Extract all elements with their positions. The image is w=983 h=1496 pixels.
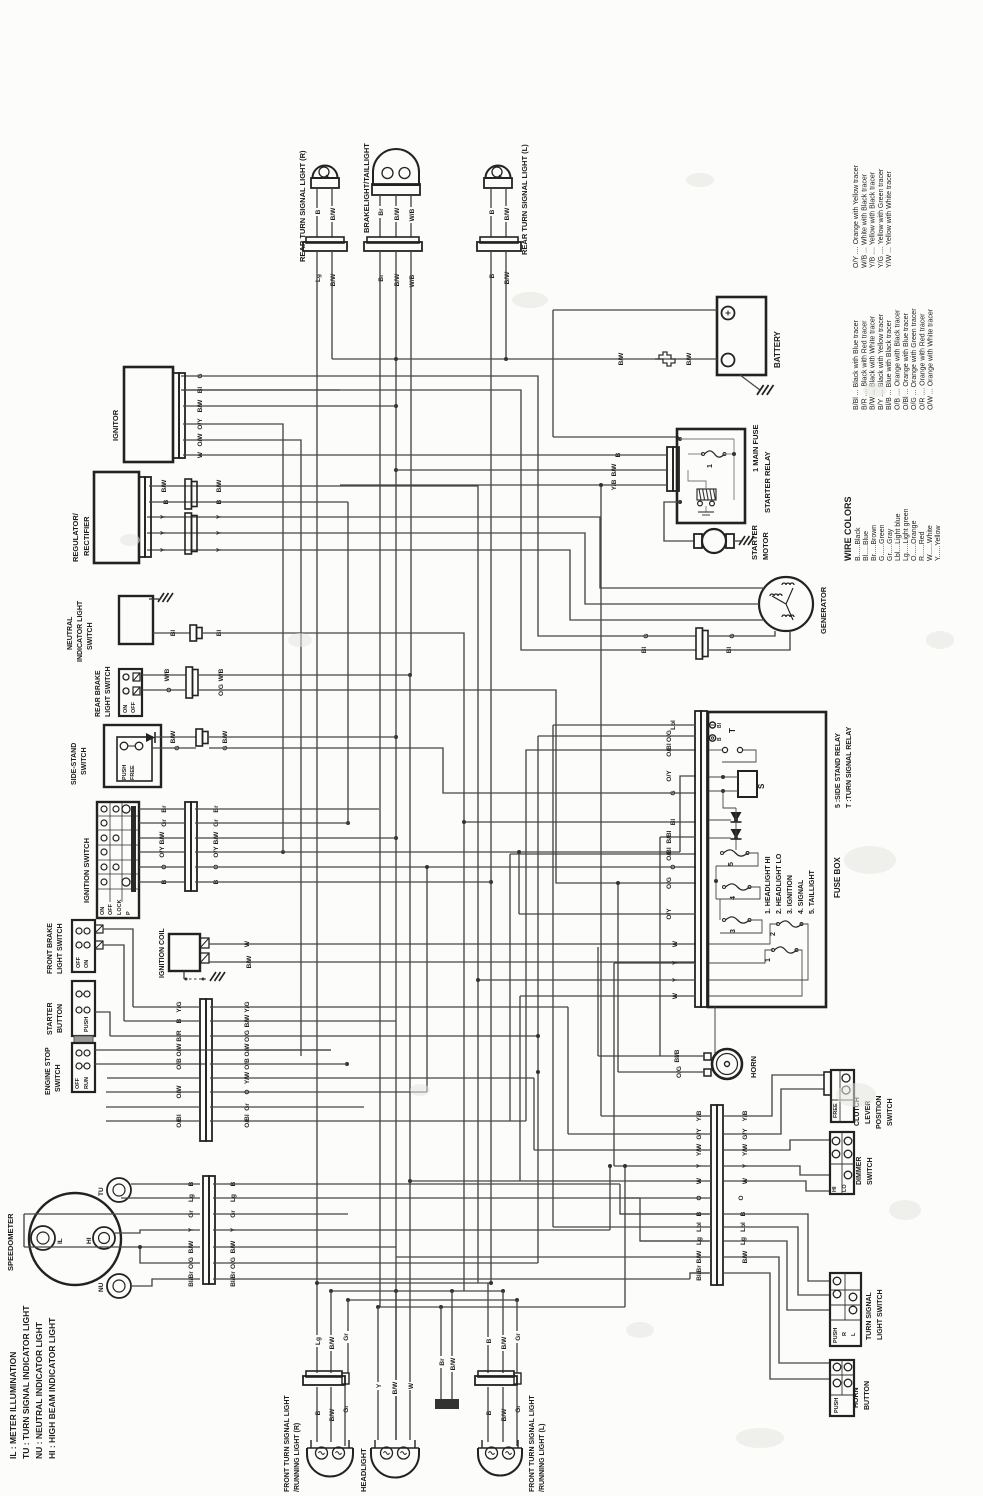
svg-text:IGNITION SWITCH: IGNITION SWITCH xyxy=(82,838,91,903)
svg-text:Y/W ... Yellow with White trac: Y/W ... Yellow with White tracer xyxy=(886,170,893,268)
wire Y/G riser xyxy=(567,1007,569,1134)
junction dist4 xyxy=(450,1289,454,1293)
wire G from side stand xyxy=(152,747,196,749)
wire headlight W riser xyxy=(409,1181,411,1440)
diode fuse box 1 xyxy=(731,812,742,822)
svg-text:1 MAIN FUSE: 1 MAIN FUSE xyxy=(751,424,760,472)
wire Br cont xyxy=(195,808,379,810)
wire O/G riser xyxy=(537,736,539,1263)
connector handlebar 9pin xyxy=(200,999,206,1141)
wire Br taillight drop xyxy=(379,251,381,1307)
wire S feed1 xyxy=(709,776,738,778)
label B/W front2 xyxy=(327,1407,337,1423)
wire front R B seg xyxy=(316,1387,318,1442)
junction dist3 xyxy=(394,1289,398,1293)
svg-text:Br: Br xyxy=(378,274,385,282)
svg-text:B: B xyxy=(740,1211,747,1216)
svg-text:ON: ON xyxy=(100,907,106,915)
wire right bar left row xyxy=(690,1272,711,1274)
wire B from regulator xyxy=(149,501,348,503)
svg-text:Y: Y xyxy=(672,977,679,982)
wire front R Gr riser xyxy=(347,1300,349,1373)
svg-text:B/W: B/W xyxy=(611,463,618,477)
starter relay box xyxy=(677,429,745,523)
wire rear R lamp B stub xyxy=(316,188,318,237)
horn terminal 1 xyxy=(704,1053,711,1060)
svg-text:O: O xyxy=(161,864,168,869)
junction dist7 xyxy=(346,1298,350,1302)
label Gr frontL2 xyxy=(513,1403,523,1415)
svg-text:SPEEDOMETER: SPEEDOMETER xyxy=(6,1213,15,1271)
wire front R B/W riser xyxy=(330,1291,332,1373)
junction Gr row xyxy=(346,821,350,825)
generator coil B xyxy=(782,583,794,585)
relay T contacts xyxy=(722,747,727,752)
side-stand switch box xyxy=(104,725,161,787)
svg-text:Gr.....Gray: Gr.....Gray xyxy=(887,528,894,561)
svg-text:O/Bl: O/Bl xyxy=(244,1114,251,1128)
label B frontL2 xyxy=(484,1409,494,1417)
svg-text:LIGHT SWITCH: LIGHT SWITCH xyxy=(877,1289,884,1340)
label B/W xyxy=(502,270,512,286)
wire speedo B/W xyxy=(24,1246,200,1248)
wire O/W row join xyxy=(205,1049,331,1051)
svg-text:R: R xyxy=(842,1332,848,1336)
lamp brake light / taillight xyxy=(373,149,419,185)
svg-text:GENERATOR: GENERATOR xyxy=(819,586,828,634)
wire O/Bl riser xyxy=(526,750,696,1121)
svg-text:O: O xyxy=(244,1089,251,1094)
junction Y/B xyxy=(599,483,603,487)
wire S to diode xyxy=(723,791,736,808)
wire Y/W riser xyxy=(533,1078,535,1150)
fuse 4 xyxy=(726,884,750,890)
svg-text:B/W: B/W xyxy=(618,352,625,366)
wire relay fuse row xyxy=(688,453,703,455)
svg-text:B/W: B/W xyxy=(686,352,693,366)
svg-text:B/W: B/W xyxy=(216,479,223,493)
wire speedo bar right row xyxy=(213,1197,640,1199)
wire 9pin right row xyxy=(210,1063,347,1065)
svg-text:Gr: Gr xyxy=(161,819,168,827)
svg-text:Lg: Lg xyxy=(230,1194,237,1202)
svg-text:G: G xyxy=(643,633,650,638)
svg-text:B: B xyxy=(161,879,168,884)
wire 9pin left row xyxy=(106,1120,200,1122)
wire B/Bl fuse row xyxy=(660,836,696,838)
wire right bar left row xyxy=(614,1165,711,1167)
svg-text:Y/G .... Yellow with Green tra: Y/G .... Yellow with Green tracer xyxy=(878,168,885,268)
svg-text:/RUNNING LIGHT (L): /RUNNING LIGHT (L) xyxy=(539,1424,546,1492)
svg-text:T: T xyxy=(728,728,737,733)
svg-text:B: B xyxy=(615,452,622,457)
wire right bar left row xyxy=(640,1240,711,1242)
svg-text:B/W: B/W xyxy=(501,1336,508,1350)
wire B cont xyxy=(195,881,491,883)
svg-text:4. SIGNAL: 4. SIGNAL xyxy=(798,879,805,914)
wire mid conn Br xyxy=(440,1307,442,1399)
svg-text:W: W xyxy=(672,940,679,947)
svg-text:B/W: B/W xyxy=(394,273,401,287)
svg-text:5: 5 xyxy=(728,862,735,866)
wire headlight B/W riser xyxy=(395,1291,397,1440)
wire B/W cont xyxy=(195,837,396,839)
label W head xyxy=(406,1382,416,1390)
svg-text:HEADLIGHT: HEADLIGHT xyxy=(359,1448,368,1492)
wire relay ground bar2 xyxy=(702,514,710,516)
coil terminal A xyxy=(200,938,209,948)
svg-text:Y/W: Y/W xyxy=(696,1143,703,1156)
wire front L Gr seg xyxy=(516,1385,518,1446)
svg-text:Br: Br xyxy=(439,1358,446,1366)
svg-text:O......Orange: O......Orange xyxy=(911,520,918,561)
svg-text:Y: Y xyxy=(672,960,679,965)
relay coil xyxy=(697,489,716,500)
wire G conn to generator xyxy=(709,631,775,636)
wire Y 2 xyxy=(147,533,759,604)
svg-text:W/B ... White with Black trace: W/B ... White with Black tracer xyxy=(861,173,868,268)
svg-text:FRONT BRAKE: FRONT BRAKE xyxy=(47,923,54,974)
generator coil C xyxy=(782,615,794,617)
svg-text:STARTER: STARTER xyxy=(750,525,759,560)
wire mid conn B/W xyxy=(451,1291,453,1399)
generator coil A xyxy=(770,594,782,596)
svg-text:Bl/Br: Bl/Br xyxy=(230,1271,237,1287)
svg-text:B/W: B/W xyxy=(504,207,511,221)
connector side stand xyxy=(196,729,203,746)
wire right bar left row xyxy=(601,1115,711,1117)
svg-text:LO: LO xyxy=(842,1184,848,1192)
label Br mid xyxy=(437,1356,447,1368)
svg-text:LOCK: LOCK xyxy=(117,899,123,915)
scan texture xyxy=(844,846,896,874)
wire Y/B to relay xyxy=(340,484,667,486)
svg-text:Y: Y xyxy=(216,530,223,535)
wire T row xyxy=(709,749,722,751)
svg-text:FRONT TURN SIGNAL LIGHT: FRONT TURN SIGNAL LIGHT xyxy=(284,1395,291,1492)
wire O/Y from ignitor xyxy=(183,424,283,852)
svg-text:O/B: O/B xyxy=(176,1058,183,1070)
generator xyxy=(759,577,813,631)
wire B/W rail to battery xyxy=(332,358,717,360)
svg-text:PUSH: PUSH xyxy=(122,765,128,780)
wire B riser to bar xyxy=(620,1184,709,1214)
junction W/B row xyxy=(408,673,412,677)
svg-text:P: P xyxy=(126,911,132,915)
svg-text:INDICATOR LIGHT: INDICATOR LIGHT xyxy=(77,600,84,662)
connector speedometer 7pin xyxy=(203,1176,209,1284)
wire right bar left row xyxy=(553,1226,711,1228)
svg-text:Y: Y xyxy=(742,1163,749,1168)
turn signal light switch box xyxy=(830,1273,861,1346)
wire Bl/B to horn xyxy=(598,1055,704,1057)
svg-text:G: G xyxy=(174,745,181,750)
junction S feed2 xyxy=(721,789,725,793)
svg-text:ON: ON xyxy=(84,960,90,968)
wire B/W from ignitor xyxy=(183,405,396,407)
junction rail a xyxy=(394,357,398,361)
wire relay to starter motor xyxy=(664,502,694,541)
wire 9pin left row xyxy=(133,1006,200,1008)
wire right bar left row xyxy=(625,1197,711,1199)
svg-text:Bl/Br: Bl/Br xyxy=(696,1265,703,1281)
wire fuse3 loop xyxy=(720,920,762,933)
horn button box xyxy=(830,1360,854,1416)
label B/W mid xyxy=(448,1356,458,1372)
lamp front turn signal R xyxy=(307,1448,353,1477)
svg-text:5. TAILLIGHT: 5. TAILLIGHT xyxy=(809,869,816,914)
svg-text:NEUTRAL: NEUTRAL xyxy=(67,616,74,650)
svg-text:O/G: O/G xyxy=(244,1030,251,1042)
svg-text:B/W: B/W xyxy=(329,1408,336,1422)
svg-text:HI : HIGH BEAM INDICATOR LIGHT: HI : HIGH BEAM INDICATOR LIGHT xyxy=(47,1317,57,1459)
svg-text:Bl: Bl xyxy=(670,819,677,826)
label Gr front xyxy=(341,1331,351,1343)
svg-text:O/W: O/W xyxy=(176,1043,183,1057)
svg-text:Bl: Bl xyxy=(726,647,733,654)
wire rear L lamp B/W stub xyxy=(505,188,507,237)
lamp front turn signal L xyxy=(478,1448,522,1476)
svg-text:Lg.....Light green: Lg.....Light green xyxy=(903,508,910,561)
fuse main inline xyxy=(655,352,675,366)
svg-text:SWITCH: SWITCH xyxy=(867,1157,874,1185)
wire relay coil ground xyxy=(705,506,707,512)
svg-text:G: G xyxy=(197,373,204,378)
wire B/W to relay xyxy=(396,469,667,471)
svg-text:Gr: Gr xyxy=(515,1405,522,1413)
side stand relay box S xyxy=(738,771,757,797)
svg-text:B: B xyxy=(188,1181,195,1186)
wire bus vertical xyxy=(463,822,465,1291)
svg-text:PUSH: PUSH xyxy=(834,1398,840,1413)
speedometer body xyxy=(29,1193,121,1285)
svg-text:Y: Y xyxy=(376,1383,383,1388)
lamp rear turn signal light R xyxy=(313,166,338,179)
link starter/engine-stop xyxy=(74,1036,93,1043)
junction relay fuse xyxy=(732,452,736,456)
wire W/B to tail drop xyxy=(199,674,411,676)
wire to clutch switch2 xyxy=(723,1089,824,1134)
wire Y/B from relay xyxy=(600,485,602,1116)
wire 9pin right row xyxy=(210,1049,331,1051)
junction Y link xyxy=(608,1164,612,1168)
wire right bar left row xyxy=(620,1213,711,1215)
wire O cont xyxy=(195,866,696,868)
svg-text:W......White: W......White xyxy=(927,525,934,561)
wire speedo Lg xyxy=(121,1197,200,1199)
wire speedo bar right row xyxy=(213,1262,538,1264)
wire S feed2 xyxy=(709,790,738,792)
wire to ts switch2 xyxy=(723,1227,830,1295)
svg-text:ON: ON xyxy=(123,705,129,713)
wire tail B/W stub xyxy=(395,195,397,237)
turn signal relay terminal 1 xyxy=(710,722,716,728)
junction rail b xyxy=(504,357,508,361)
connector neutral switch xyxy=(190,625,197,641)
svg-text:W: W xyxy=(244,940,251,947)
svg-text:O/G: O/G xyxy=(230,1257,237,1269)
svg-text:B: B xyxy=(486,1338,493,1343)
wire fuse2 out xyxy=(709,924,808,980)
front brake light switch box xyxy=(72,920,95,972)
wire to horn button2 xyxy=(723,1273,830,1379)
svg-text:BUTTON: BUTTON xyxy=(864,1381,871,1410)
wire O/Y cont xyxy=(195,851,680,853)
wire Y riser dim xyxy=(613,963,615,1166)
wire fuse rail xyxy=(715,866,717,899)
svg-text:O/Y: O/Y xyxy=(197,418,204,430)
wire lamp dist Gr xyxy=(348,1299,517,1301)
wire R into starter relay xyxy=(553,436,679,438)
svg-text:Gr: Gr xyxy=(343,1333,350,1341)
wire to dimmer1 xyxy=(723,1140,830,1150)
wire fuse box to horn xyxy=(714,1007,716,1056)
svg-text:Y: Y xyxy=(160,547,167,552)
svg-text:B: B xyxy=(216,499,223,504)
svg-text:B......Black: B......Black xyxy=(855,527,862,561)
svg-text:W: W xyxy=(696,1177,703,1184)
wire tail W/B stub xyxy=(410,195,412,237)
wire O from rear brake switch xyxy=(142,689,186,691)
wire fuse rail2 xyxy=(719,899,721,920)
svg-text:MOTOR: MOTOR xyxy=(761,532,770,560)
wire B rear turn L drop xyxy=(490,251,492,1283)
svg-text:W/B: W/B xyxy=(409,274,416,287)
svg-text:B: B xyxy=(163,499,170,504)
svg-text:B: B xyxy=(315,209,322,214)
svg-text:5 :SIDE STAND RELAY: 5 :SIDE STAND RELAY xyxy=(835,733,842,808)
regulator/rectifier box xyxy=(94,472,139,563)
svg-text:W: W xyxy=(408,1382,415,1389)
wire to horn button1 xyxy=(723,1257,830,1363)
junction S feed xyxy=(721,775,725,779)
horn terminal 2 xyxy=(704,1069,711,1076)
svg-text:IL : METER ILLUMINATION: IL : METER ILLUMINATION xyxy=(8,1352,18,1459)
wire G from ignitor xyxy=(181,376,696,636)
wire engine stop 1 xyxy=(95,1049,205,1051)
wire front brake to B row xyxy=(103,945,124,1021)
fuse 2 xyxy=(780,921,802,927)
wire front L B seg xyxy=(487,1387,489,1442)
junction dist5 xyxy=(329,1289,333,1293)
svg-text:Bl/B ... Blue with Black trace: Bl/B ... Blue with Black tracer xyxy=(886,319,893,410)
svg-text:SIDE-STAND: SIDE-STAND xyxy=(71,743,78,785)
wire W coil to fuse box xyxy=(209,943,696,945)
svg-text:Y: Y xyxy=(188,1227,195,1232)
connector mid bottom xyxy=(435,1399,459,1409)
wire Lg riser to bar xyxy=(640,1198,709,1241)
svg-text:Y: Y xyxy=(216,547,223,552)
wire O/W from ignitor xyxy=(183,440,301,1056)
svg-text:SWITCH: SWITCH xyxy=(87,622,94,650)
svg-text:Gr: Gr xyxy=(244,1103,251,1111)
wire 9pin right row xyxy=(210,1020,396,1022)
svg-text:O/Y: O/Y xyxy=(666,770,673,782)
svg-text:O/G: O/G xyxy=(188,1257,195,1269)
svg-text:O/Y: O/Y xyxy=(159,846,166,858)
wire O/Bl fuse row2 xyxy=(510,853,696,855)
svg-text:OFF: OFF xyxy=(76,956,82,968)
svg-text:FREE: FREE xyxy=(833,1103,839,1118)
svg-text:O/Bl ... Orange with Blue trac: O/Bl ... Orange with Blue tracer xyxy=(903,312,910,410)
svg-text:STARTER: STARTER xyxy=(47,1002,54,1035)
wire O/Y riser to fuse xyxy=(680,776,696,852)
svg-text:LIGHT SWITCH: LIGHT SWITCH xyxy=(105,666,112,717)
svg-text:HORN: HORN xyxy=(749,1056,758,1078)
svg-text:B/W: B/W xyxy=(696,1250,703,1264)
wire rear L lamp B stub xyxy=(490,188,492,237)
svg-text:Bl: Bl xyxy=(170,630,177,637)
wire front brake to Y/G row xyxy=(103,929,133,1007)
wire T loop xyxy=(722,750,756,762)
svg-text:Lg: Lg xyxy=(188,1194,195,1202)
junction speedo B/W xyxy=(138,1245,142,1249)
connector rear turn L xyxy=(480,237,518,243)
svg-text:NU: NU xyxy=(98,1282,105,1292)
svg-text:Br: Br xyxy=(378,208,385,216)
svg-text:TURN SIGNAL: TURN SIGNAL xyxy=(866,1291,873,1340)
wire Gr cont xyxy=(195,822,348,824)
wire B/W from regulator xyxy=(149,486,478,1283)
svg-text:Br.....Brown: Br.....Brown xyxy=(871,525,878,561)
wire Bl/Br jog xyxy=(690,1273,709,1279)
horn xyxy=(712,1049,742,1079)
junction dist9 xyxy=(439,1305,443,1309)
connector ignition switch xyxy=(185,802,191,891)
wire W2 fuse row xyxy=(520,995,696,997)
svg-text:Y: Y xyxy=(216,514,223,519)
label B/W xyxy=(392,206,402,222)
svg-text:FUSE BOX: FUSE BOX xyxy=(833,856,842,898)
svg-text:O: O xyxy=(166,687,173,692)
label B frontL xyxy=(484,1337,494,1345)
junction Bl fuse xyxy=(462,820,466,824)
svg-text:3: 3 xyxy=(730,929,737,933)
wire to clutch switch xyxy=(723,1075,824,1116)
label B xyxy=(313,208,323,216)
wire headlight Y riser xyxy=(377,1307,379,1440)
connector rear brake switch xyxy=(186,667,193,698)
junction fuse rail xyxy=(714,879,718,883)
svg-text:1: 1 xyxy=(765,958,772,962)
svg-text:W/B: W/B xyxy=(409,208,416,221)
svg-text:O/R .... Orange with Red trace: O/R .... Orange with Red tracer xyxy=(919,313,926,410)
wire battery positive R xyxy=(553,309,717,311)
label B xyxy=(487,272,497,280)
svg-text:Y: Y xyxy=(230,1227,237,1232)
wire Y2 fuse row xyxy=(478,979,696,981)
svg-text:Y: Y xyxy=(160,514,167,519)
junction O/B bus xyxy=(345,1062,349,1066)
svg-text:HI: HI xyxy=(86,1237,93,1244)
svg-text:B/W: B/W xyxy=(742,1250,749,1264)
junction O/Y row xyxy=(281,850,285,854)
ground neutral switch xyxy=(158,593,164,602)
svg-text:B/W: B/W xyxy=(170,730,177,744)
wire B/W rear turn R drop xyxy=(331,251,333,359)
svg-text:2: 2 xyxy=(770,932,777,936)
label B/W xyxy=(502,206,512,222)
junction relay feed xyxy=(678,437,682,441)
svg-text:T :TURN SIGNAL RELAY: T :TURN SIGNAL RELAY xyxy=(846,726,853,808)
wire relay ground bar xyxy=(698,511,714,513)
wire right bar left row xyxy=(410,1180,711,1182)
svg-text:Lbl: Lbl xyxy=(696,1222,703,1232)
svg-text:/RUNNING LIGHT (R): /RUNNING LIGHT (R) xyxy=(294,1423,301,1492)
wire speedo bar right row xyxy=(213,1183,620,1185)
svg-text:Y/G: Y/G xyxy=(244,1001,251,1012)
svg-text:O/B .... Orange with Black tra: O/B .... Orange with Black tracer xyxy=(895,309,902,410)
